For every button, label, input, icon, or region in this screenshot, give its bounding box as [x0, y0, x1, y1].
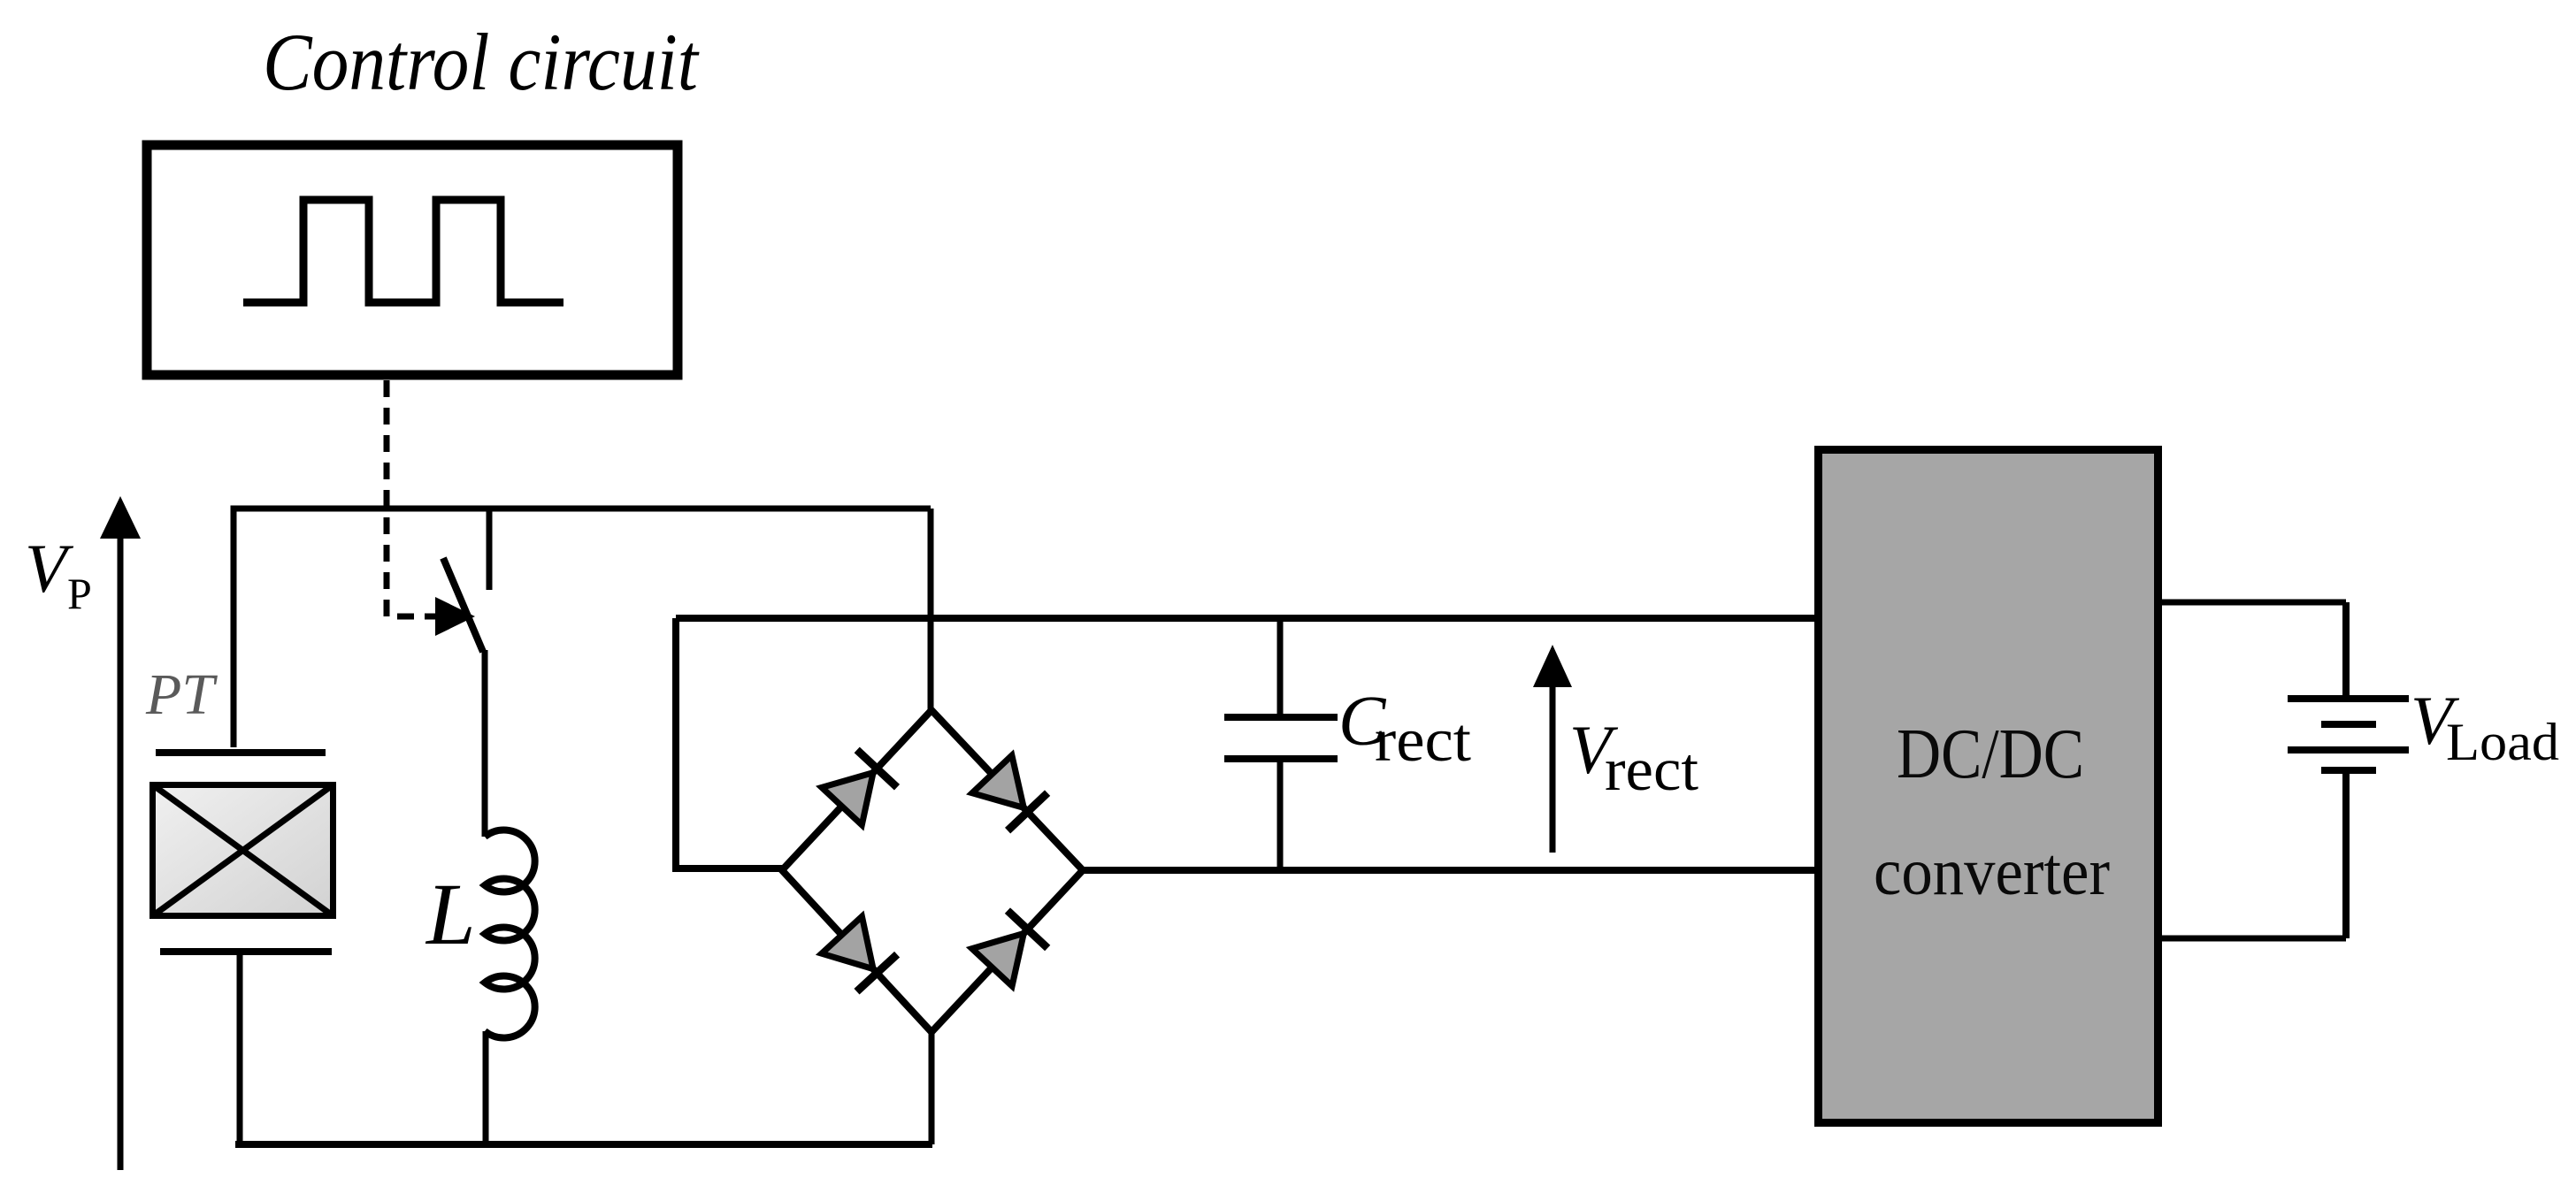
svg-text:L: L — [425, 865, 476, 963]
piezoelectric transducer PT body — [153, 785, 333, 916]
switch S1 blade — [443, 558, 483, 652]
diode D4 — [972, 933, 1024, 986]
wire: battery top lead — [2342, 602, 2350, 699]
svg-text:Control circuit: Control circuit — [263, 17, 700, 107]
bottom wire — [235, 1141, 932, 1148]
wire: PT to bottom wire — [237, 952, 243, 1144]
top wire — [234, 509, 931, 747]
dashed control line — [387, 380, 438, 616]
svg-text:rect: rect — [1375, 707, 1472, 775]
svg-text:DC/DC: DC/DC — [1897, 715, 2084, 793]
wire: switch to inductor — [482, 650, 488, 837]
DC/DC converter box — [1819, 450, 2158, 1123]
wire: rail down to bridge left vertex — [676, 618, 782, 868]
wire: converter top output — [2162, 600, 2346, 606]
PT bottom plate — [160, 948, 332, 955]
V_P arrow — [118, 531, 124, 1170]
capacitor C_rect — [1277, 618, 1284, 715]
diode bridge frame — [782, 710, 1083, 1032]
svg-text:PT: PT — [145, 662, 218, 727]
top DC rail — [676, 615, 1815, 622]
svg-text:rect: rect — [1605, 736, 1698, 803]
control circuit box — [147, 145, 678, 375]
wire: converter bottom output — [2162, 936, 2346, 942]
diode D2 — [972, 755, 1023, 807]
switch S1 fixed contact — [487, 506, 493, 590]
PT top plate — [156, 749, 326, 756]
V_rect arrow — [1550, 683, 1556, 853]
battery V_Load — [2288, 695, 2409, 702]
dashed-line arrowhead — [435, 597, 475, 636]
wire: top wire down to bridge top — [928, 509, 934, 710]
wire: bridge bottom to bottom wire — [929, 1032, 935, 1144]
pulse waveform — [243, 200, 563, 302]
svg-text:converter: converter — [1874, 835, 2110, 909]
diode D1 — [822, 773, 873, 825]
diode D3 — [822, 916, 873, 968]
bottom DC rail — [1083, 867, 1815, 874]
wire: battery bottom lead — [2342, 774, 2350, 938]
inductor L — [485, 830, 535, 1038]
wire: inductor to bottom wire — [483, 1031, 489, 1144]
svg-text:Load: Load — [2446, 713, 2559, 771]
svg-text:P: P — [67, 569, 92, 618]
